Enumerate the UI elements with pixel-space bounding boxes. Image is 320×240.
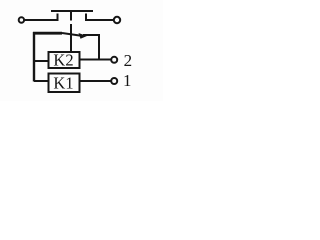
svg-text:1: 1 (123, 71, 132, 90)
svg-text:K2: K2 (53, 50, 73, 69)
svg-text:K1: K1 (53, 73, 73, 92)
svg-text:2: 2 (124, 51, 133, 70)
